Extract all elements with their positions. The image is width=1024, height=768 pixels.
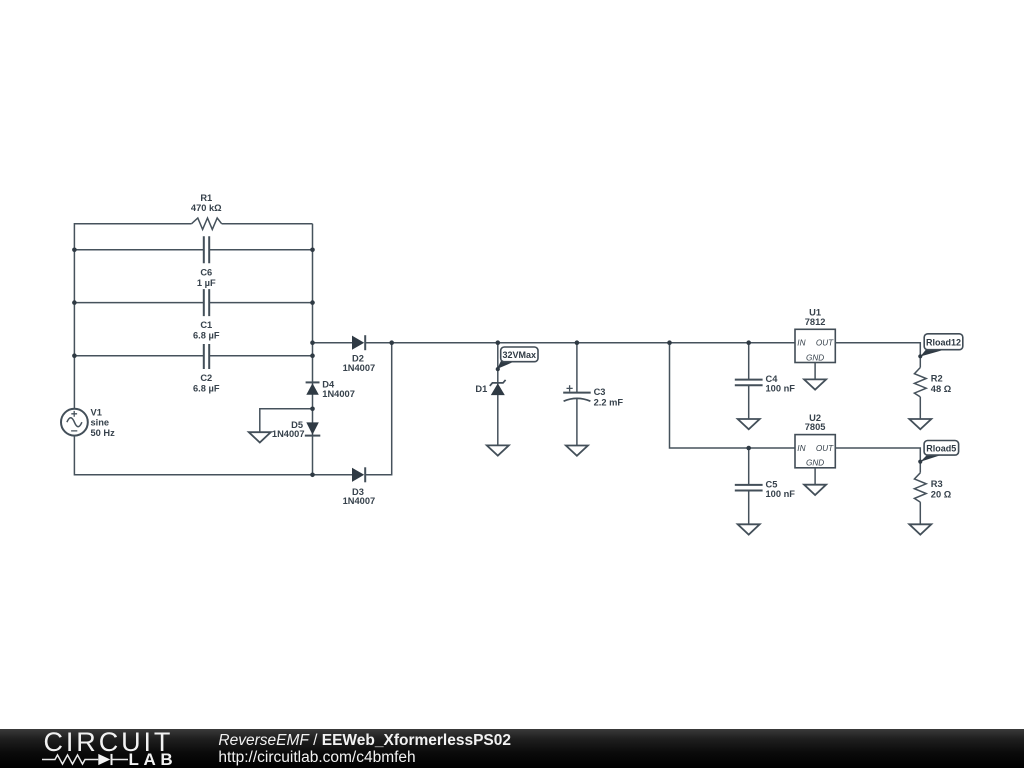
ground (U2) xyxy=(804,485,826,495)
wire top rail right segment xyxy=(222,223,313,225)
ground (D5 branch) xyxy=(249,432,271,442)
svg-text:1N4007: 1N4007 xyxy=(272,429,305,439)
svg-text:GND: GND xyxy=(806,459,824,468)
wire C4 branch xyxy=(748,343,750,419)
ground (D1) xyxy=(487,445,509,455)
svg-text:Rload12: Rload12 xyxy=(926,338,961,348)
svg-text:GND: GND xyxy=(806,353,824,362)
node Rload12 pointer xyxy=(918,354,922,358)
svg-text:D4: D4 xyxy=(322,380,335,390)
svg-text:IN: IN xyxy=(797,444,805,453)
ground (C3) xyxy=(566,446,588,456)
wire bottom rail xyxy=(74,436,352,475)
svg-text:1N4007: 1N4007 xyxy=(343,496,376,506)
callout Rload5 xyxy=(920,441,958,462)
wire right rail xyxy=(312,224,314,475)
node right rail / main xyxy=(310,340,315,345)
node right rail / D5 branch xyxy=(310,407,315,412)
wire U1 gnd xyxy=(814,363,816,380)
node D3 riser xyxy=(389,340,394,345)
svg-text:20 Ω: 20 Ω xyxy=(931,489,952,499)
capacitor C1 xyxy=(204,289,209,316)
svg-text:50 Hz: 50 Hz xyxy=(91,428,116,438)
svg-text:C2: C2 xyxy=(200,373,212,383)
wire U1 out xyxy=(835,343,920,368)
ground (C5) xyxy=(738,524,760,534)
svg-text:ReverseEMF / EEWeb_Xformerless: ReverseEMF / EEWeb_XformerlessPS02 xyxy=(218,732,511,749)
svg-text:OUT: OUT xyxy=(816,339,834,348)
svg-text:C5: C5 xyxy=(766,479,778,489)
resistor R2 xyxy=(914,368,926,397)
IC U2 7805 xyxy=(795,413,835,468)
wire C2 row xyxy=(74,355,312,357)
zener D1 xyxy=(491,383,505,395)
node dots xyxy=(72,248,922,478)
wire U2 out xyxy=(835,448,920,473)
node right rail / C6 xyxy=(310,248,315,253)
svg-text:R1: R1 xyxy=(200,193,212,203)
IC U1 7812 xyxy=(795,308,835,363)
node 32VMax pointer xyxy=(496,367,500,371)
capacitor C6 xyxy=(204,236,209,263)
svg-text:Rload5: Rload5 xyxy=(926,443,956,453)
resistor R3 xyxy=(914,473,926,502)
svg-text:100 nF: 100 nF xyxy=(766,384,796,394)
svg-text:48 Ω: 48 Ω xyxy=(931,384,952,394)
node Rload5 pointer xyxy=(918,460,922,464)
node D1 branch xyxy=(496,340,501,345)
svg-text:C4: C4 xyxy=(766,374,779,384)
resistor R1 xyxy=(192,218,222,229)
svg-text:C1: C1 xyxy=(200,320,212,330)
wire top rail with left rail xyxy=(74,224,191,409)
node left rail / C2 xyxy=(72,353,77,358)
ground (R2) xyxy=(909,419,931,429)
svg-text:C6: C6 xyxy=(200,268,212,278)
svg-text:http://circuitlab.com/c4bmfeh: http://circuitlab.com/c4bmfeh xyxy=(218,749,415,766)
wire C3 branch xyxy=(576,343,578,446)
capacitor C4 xyxy=(735,380,763,386)
svg-text:R3: R3 xyxy=(931,479,943,489)
callout 32VMax xyxy=(497,347,538,369)
voltage source V1 xyxy=(61,409,88,436)
svg-text:7812: 7812 xyxy=(805,317,826,327)
node C5 branch xyxy=(746,446,751,451)
capacitor C3 xyxy=(563,392,591,394)
svg-text:IN: IN xyxy=(797,339,805,348)
wire C5 branch xyxy=(748,448,750,524)
wire D5 ground branch xyxy=(260,409,313,432)
diode D5 xyxy=(306,422,319,434)
svg-text:6.8 µF: 6.8 µF xyxy=(193,331,220,341)
diode D3 xyxy=(352,468,364,482)
node left rail / C1 xyxy=(72,300,77,305)
node C4 branch xyxy=(746,340,751,345)
svg-text:D2: D2 xyxy=(352,354,364,364)
wire main rail xyxy=(365,342,795,344)
wire R3 bottom xyxy=(919,502,921,524)
svg-text:sine: sine xyxy=(91,418,110,428)
svg-text:LAB: LAB xyxy=(129,750,178,768)
node right rail / bottom xyxy=(310,473,315,478)
ground (C4) xyxy=(738,419,760,429)
svg-text:R2: R2 xyxy=(931,374,943,384)
node C3 branch xyxy=(575,340,580,345)
svg-text:2.2 mF: 2.2 mF xyxy=(594,397,624,407)
wire row2 feed xyxy=(670,343,796,448)
svg-text:C3: C3 xyxy=(594,387,606,397)
svg-text:1 µF: 1 µF xyxy=(197,278,216,288)
svg-text:7805: 7805 xyxy=(805,422,826,432)
wire C6 row xyxy=(74,249,312,251)
diode D2 xyxy=(352,336,364,350)
node left rail / C6 xyxy=(72,248,77,253)
wire U2 gnd xyxy=(814,468,816,485)
svg-text:32VMax: 32VMax xyxy=(503,350,537,360)
wire R2 bottom xyxy=(919,397,921,419)
svg-text:OUT: OUT xyxy=(816,444,834,453)
wire C1 row xyxy=(74,302,312,304)
svg-text:100 nF: 100 nF xyxy=(766,489,796,499)
CircuitLab logo xyxy=(42,727,177,768)
svg-text:1N4007: 1N4007 xyxy=(322,389,355,399)
capacitor C2 xyxy=(204,344,209,369)
capacitor C5 xyxy=(735,485,763,491)
ground (U1) xyxy=(804,379,826,389)
ground (R3) xyxy=(909,524,931,534)
callout Rload12 xyxy=(920,334,963,357)
node row2 feed xyxy=(667,340,672,345)
svg-text:V1: V1 xyxy=(91,407,102,417)
node right rail / C2 xyxy=(310,353,315,358)
wire zener branch xyxy=(497,343,499,446)
svg-text:1N4007: 1N4007 xyxy=(343,363,376,373)
wire D3 to main rail riser xyxy=(365,343,392,475)
node right rail / C1 xyxy=(310,300,315,305)
svg-text:470 kΩ: 470 kΩ xyxy=(191,203,222,213)
wire main rail left of D2 xyxy=(313,342,353,344)
svg-text:6.8 µF: 6.8 µF xyxy=(193,383,220,393)
footer bar xyxy=(0,729,1024,768)
diode D4 xyxy=(306,383,319,395)
svg-text:D1: D1 xyxy=(475,384,487,394)
